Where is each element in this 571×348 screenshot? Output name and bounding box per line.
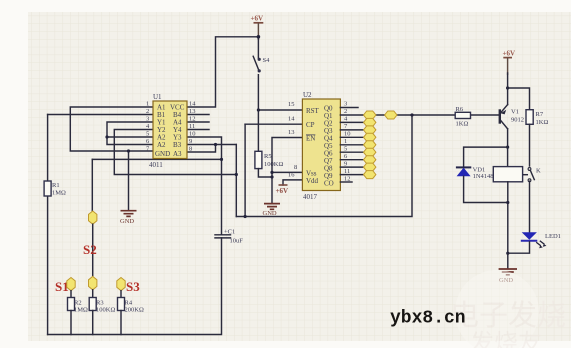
svg-text:15: 15 [288, 101, 295, 108]
svg-text:R1: R1 [52, 182, 60, 189]
wire U1 pin7 GND drop [128, 151, 130, 210]
svg-text:200KΩ: 200KΩ [125, 307, 144, 314]
wire U2 RST pin15 to S4 net [258, 109, 302, 111]
wire U1 pin5 joins Y2 vertical [107, 136, 153, 138]
svg-text:A2: A2 [157, 141, 166, 149]
svg-text:S3: S3 [126, 279, 140, 294]
svg-text:U1: U1 [153, 93, 162, 101]
wire Q2 [340, 121, 363, 123]
wire Q6 [340, 151, 363, 153]
LED LED1 [521, 232, 561, 248]
svg-text:5: 5 [344, 146, 347, 153]
svg-text:Vdd: Vdd [306, 177, 319, 185]
svg-text:14: 14 [288, 116, 295, 123]
svg-text:1: 1 [344, 138, 347, 145]
wire U1 right VCC pin14 up to top rail [187, 37, 258, 107]
node pin5 junction [105, 135, 108, 138]
svg-text:U2: U2 [303, 91, 312, 99]
wire S2 middle [92, 224, 94, 276]
resistor R3 [89, 298, 115, 314]
svg-text:3: 3 [146, 116, 149, 123]
svg-text:V1: V1 [511, 109, 519, 116]
svg-text:+C1: +C1 [224, 229, 235, 236]
jumper pad Q8 [364, 163, 376, 171]
svg-text:10: 10 [344, 131, 351, 138]
svg-text:R5: R5 [264, 153, 272, 160]
wire R2 to bottom rail [70, 311, 72, 335]
wire branch to R7 [508, 88, 530, 110]
power +6V right port [503, 50, 516, 58]
svg-text:4017: 4017 [303, 193, 318, 201]
jumper pad S3 [117, 278, 125, 291]
jumper pad Q4 [364, 133, 376, 141]
svg-text:R3: R3 [96, 300, 104, 307]
transistor V1 9012 PNP [500, 105, 524, 129]
jumper pad S2 bottom [89, 276, 97, 289]
jumper pad Q7 [364, 156, 376, 164]
wire tie pin9 to pin8 [187, 145, 216, 153]
svg-text:9012: 9012 [511, 117, 524, 124]
svg-text:K: K [536, 168, 541, 175]
svg-text:1N4148: 1N4148 [473, 173, 494, 180]
svg-text:13: 13 [189, 108, 196, 115]
power +6V top port [251, 15, 264, 23]
IC U1 4011 [146, 93, 196, 169]
node collector branch [506, 146, 509, 149]
svg-text:S4: S4 [263, 57, 271, 64]
relay coil K [493, 167, 522, 182]
jumper pad Q6 [364, 148, 376, 156]
node R7 branch junction [506, 86, 509, 89]
node Vss junction [270, 171, 273, 174]
svg-text:R6: R6 [456, 106, 464, 113]
node R5 gnd junction [270, 175, 273, 178]
wire down to GND3 [507, 253, 509, 268]
svg-text:16: 16 [288, 172, 295, 179]
wire +6V to emitter [507, 58, 509, 75]
node Q1 feedback junction [410, 113, 413, 116]
wire R3 to bottom rail [92, 311, 94, 335]
svg-text:9: 9 [189, 138, 192, 145]
jumper pad Q2 [364, 118, 376, 126]
resistor R1 [44, 181, 66, 197]
svg-text:GND: GND [263, 210, 277, 217]
resistor R6 [455, 106, 470, 128]
wire loop vertical left [235, 145, 237, 217]
wire Q5 [340, 144, 363, 146]
node CP loop junction [244, 215, 247, 218]
wire U1 right pin13 stub [187, 114, 209, 116]
wire Q7 [340, 159, 363, 161]
wire collector down to relay [507, 129, 509, 167]
svg-text:100KΩ: 100KΩ [96, 307, 115, 314]
node RST junction [257, 108, 260, 111]
ground GND2 under U2 [263, 204, 281, 217]
node pin7 gnd junction [127, 149, 130, 152]
wire U2 Vdd pin16 to +6V [283, 180, 302, 185]
node VD1 return junction [506, 201, 509, 204]
watermark logo [450, 270, 566, 348]
svg-text:1KΩ: 1KΩ [536, 119, 549, 126]
node pin9 tie junction [214, 143, 217, 146]
IC U2 4017 [288, 91, 351, 201]
relay contact K [524, 124, 541, 181]
svg-text:EN: EN [306, 135, 315, 143]
wire U2 EN pin13 down [272, 138, 302, 204]
svg-text:10uF: 10uF [230, 238, 244, 245]
jumper pad Q5 [364, 141, 376, 149]
svg-text:2: 2 [344, 108, 347, 115]
resistor R2 [68, 298, 89, 314]
svg-text:GND: GND [155, 150, 170, 158]
wire C1 bottom to bottom rail [48, 238, 222, 335]
svg-text:+6V: +6V [503, 50, 516, 58]
node LED return junction [506, 252, 509, 255]
svg-text:S2: S2 [83, 242, 97, 257]
svg-text:8: 8 [294, 164, 297, 171]
wire U1 pin4 Y2 down and under chip to loop vertical [114, 130, 236, 175]
wire Q0 stub [340, 107, 358, 109]
svg-text:2: 2 [146, 108, 149, 115]
wire branch to VD1 [464, 147, 508, 166]
svg-text:1: 1 [146, 101, 149, 108]
svg-text:RST: RST [306, 107, 320, 115]
svg-text:LED1: LED1 [545, 233, 561, 240]
resistor R5 [255, 151, 284, 168]
wire R5 bottom to gnd junction [258, 169, 272, 177]
svg-text:R4: R4 [125, 300, 133, 307]
wire Q8 [340, 166, 363, 168]
wire S2 column top [91, 159, 93, 212]
wire S3 pad to R4 [120, 291, 122, 297]
wire bottom loop to Q1 feedback [236, 115, 412, 217]
svg-text:ybx8.cn: ybx8.cn [390, 309, 466, 329]
power +6V port at Vdd [276, 185, 289, 195]
wire relay bottom down [507, 182, 509, 253]
svg-text:10: 10 [189, 131, 196, 138]
svg-text:B3: B3 [173, 141, 182, 149]
ground GND3 right [499, 269, 517, 284]
wire VD1 bottom loop [464, 176, 508, 202]
wire under-chip from S2 column to C1 drop [92, 158, 221, 160]
svg-text:11: 11 [189, 123, 195, 130]
svg-text:12: 12 [189, 116, 196, 123]
resistor R7 [526, 110, 548, 126]
wire S1 pad to R2 [70, 291, 72, 297]
wire U1 right pin11 stub [187, 129, 209, 131]
wire Q1 to R6 and base [340, 114, 499, 116]
svg-text:100KΩ: 100KΩ [264, 161, 283, 168]
svg-text:1KΩ: 1KΩ [456, 121, 469, 128]
node under-chip joins C1 drop [220, 158, 223, 161]
svg-text:A3: A3 [173, 150, 182, 158]
svg-text:R2: R2 [74, 300, 82, 307]
jumper pad S2 top [89, 211, 97, 224]
wire U1 right pin12 stub [187, 121, 209, 123]
svg-text:CP: CP [306, 121, 315, 129]
switch S4 [253, 56, 270, 72]
jumper pad Q3 [364, 126, 376, 134]
jumper pad Q1 [364, 111, 376, 119]
wire U1 right pin9 to loop vertical [187, 144, 236, 146]
wire R4 to bottom rail [120, 311, 122, 335]
svg-text:3: 3 [344, 101, 347, 108]
wire U2 CP pin14 [245, 123, 302, 125]
wire U1 pin2 to left rail [48, 114, 153, 116]
svg-text:1MΩ: 1MΩ [52, 190, 66, 197]
jumper pad on Q1 wire [385, 111, 397, 119]
wire U2 Vss pin8 [272, 171, 302, 173]
svg-text:电子发烧: 电子发烧 [450, 299, 566, 332]
svg-text:R7: R7 [536, 111, 544, 118]
wire Q4 [340, 136, 363, 138]
wire Q3 [340, 129, 363, 131]
svg-text:4011: 4011 [149, 161, 163, 169]
svg-text:CO: CO [324, 180, 334, 188]
resistor R4 [118, 298, 144, 314]
node top rail junction [257, 35, 261, 39]
wire U1 pin1 to pin7 loop (left feedback) [70, 107, 153, 151]
jumper pad Q9 [364, 171, 376, 179]
svg-text:14: 14 [189, 101, 196, 108]
capacitor C1 [215, 229, 243, 245]
svg-text:GND: GND [120, 218, 134, 225]
wire K to LED1 [529, 181, 531, 232]
diode VD1 1N4148 [456, 167, 494, 181]
svg-text:8: 8 [189, 146, 192, 153]
node Y2 line joins loop vertical [235, 173, 238, 176]
svg-text:1MΩ: 1MΩ [74, 307, 88, 314]
wire left rail down through R1 to bottom rail [47, 115, 49, 335]
svg-text:13: 13 [288, 129, 295, 136]
svg-text:发烧友: 发烧友 [470, 330, 542, 348]
wire CP drop to loop [244, 124, 246, 216]
wire LED1 to gnd column [508, 242, 530, 253]
svg-text:+6V: +6V [276, 187, 289, 195]
wire S2 pad to R3 [92, 290, 94, 297]
wire S4 to R5 [257, 75, 259, 152]
wire U1 pin3 Y1 to pin6 tie [107, 122, 153, 145]
svg-text:5: 5 [146, 131, 149, 138]
svg-text:+6V: +6V [251, 15, 264, 23]
ground GND1 under U1 [120, 211, 137, 225]
wire CO stub [340, 181, 352, 183]
wire Q9 [340, 174, 363, 176]
wire +6V down to S4 [257, 23, 259, 40]
jumper pad S1 [67, 278, 75, 291]
wire U1 right pin10 to C1 [187, 137, 222, 235]
